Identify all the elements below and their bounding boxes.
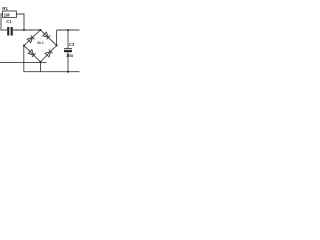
svg-text:10u: 10u: [66, 53, 74, 58]
svg-text:1M: 1M: [4, 13, 10, 18]
svg-text:C1: C1: [6, 19, 12, 24]
svg-text:C3: C3: [69, 42, 75, 47]
svg-text:Br1: Br1: [37, 40, 44, 45]
svg-text:R1: R1: [2, 6, 8, 11]
